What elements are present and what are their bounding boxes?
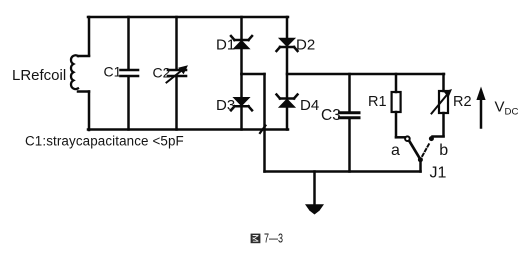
svg-text:D4: D4 [300,97,319,114]
inductor LRefcoil [71,55,89,91]
ground [305,204,324,214]
caption figure icon (CJK 图) [251,234,261,244]
wire bottom-right rail [265,170,421,173]
wire right top rail [287,73,444,76]
diode D2 (zener, cathode down) [277,17,298,99]
diode D1 (zener, cathode up) [231,17,252,74]
svg-text:R1: R1 [368,94,387,110]
wire left edge upper [88,17,91,56]
svg-text:D1: D1 [216,37,235,54]
switch J1 [396,136,444,171]
wire top rail [88,16,288,19]
wire crossing nub at bottom-left rail [260,126,266,134]
wire left edge lower [88,92,91,131]
wire ground stub [313,172,316,206]
svg-text:D3: D3 [216,97,235,114]
capacitor C1 [121,17,139,130]
svg-text:b: b [439,142,448,159]
svg-text:C2: C2 [153,65,171,81]
svg-text:R2: R2 [453,94,472,110]
resistor R2 (variable) [432,74,453,136]
arrow VDC [476,87,485,128]
diode D4 (zener, cathode up) [277,95,298,130]
resistor R1 [392,74,401,137]
diode D3 (zener, cathode down) [231,74,252,130]
svg-text:C1:straycapacitance <5pF: C1:straycapacitance <5pF [25,133,184,148]
svg-text:C3: C3 [321,107,341,124]
svg-text:J1: J1 [430,165,447,182]
wire mid vertical to bottom rail [263,74,266,172]
wire bottom rail of tank box [88,128,288,131]
capacitor C2 (variable) [167,17,189,130]
svg-text:D2: D2 [296,37,315,54]
svg-text:a: a [391,142,400,159]
capacitor C3 [340,74,360,172]
wire bridge left midpoint stub [242,73,265,76]
svg-text:C1: C1 [104,64,122,80]
svg-text:7—3: 7—3 [264,232,283,246]
svg-text:LRefcoil: LRefcoil [12,67,66,84]
